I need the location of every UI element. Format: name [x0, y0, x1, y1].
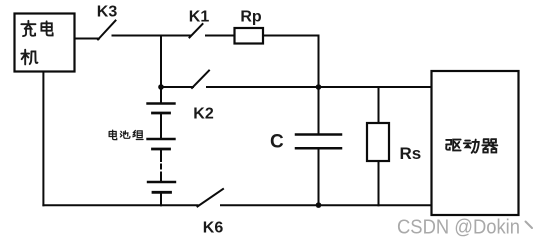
- battery cell 1 long plate: [148, 102, 175, 104]
- wire between battery cells 1-2: [160, 114, 162, 138]
- label 电池组 (battery pack): [109, 130, 117, 139]
- wire battery bottom to bottom bus: [160, 193, 162, 205]
- wire charger down left side: [42, 72, 44, 206]
- wire below cell 2: [160, 150, 162, 161]
- label 机 (line 2 of charger text): [21, 50, 37, 65]
- wire battery branch drop from top bus: [160, 36, 162, 104]
- switch K6 blade: [198, 189, 224, 207]
- resistor Rs bottom lead: [378, 161, 380, 205]
- battery cell 3 long plate: [148, 181, 175, 183]
- driver box (驱动器): [432, 71, 519, 215]
- svg-text:K3: K3: [97, 4, 118, 21]
- switch K2 blade: [192, 71, 209, 89]
- svg-text:CSDN @Dokin: CSDN @Dokin: [397, 217, 520, 239]
- svg-text:K1: K1: [189, 9, 210, 26]
- svg-text:K6: K6: [203, 220, 224, 237]
- battery cell 1 short plate: [153, 112, 170, 115]
- label 驱动器 (driver text): [446, 140, 460, 151]
- wire Rp to corner: [263, 35, 319, 37]
- svg-text:K2: K2: [193, 106, 214, 123]
- wire K2 bus right segment to driver: [207, 86, 432, 88]
- resistor Rs body: [367, 123, 389, 161]
- wire above cell 3: [160, 173, 162, 182]
- battery cell 3 short plate: [153, 191, 171, 194]
- svg-text:C: C: [270, 132, 284, 153]
- wire charger to K3: [75, 38, 100, 40]
- watermark tick mark: [526, 222, 533, 229]
- node: Rp corner / K2 bus junction: [316, 84, 322, 90]
- svg-text:Rs: Rs: [400, 144, 422, 163]
- bottom bus left segment to K6: [43, 204, 197, 206]
- charger box (充电机): [15, 14, 75, 72]
- battery cell 2 short plate: [153, 148, 170, 151]
- capacitor C bottom lead: [318, 150, 320, 206]
- node: capacitor / bottom bus junction: [316, 202, 322, 208]
- bottom bus right segment to driver: [221, 204, 432, 206]
- capacitor C bottom plate: [296, 147, 341, 150]
- wire K1 to Rp: [206, 35, 235, 37]
- label 充电 (line 1 of charger text): [21, 21, 35, 36]
- battery ellipsis dash: [160, 165, 162, 169]
- resistor Rs top lead: [378, 87, 380, 123]
- switch K1 blade: [190, 24, 203, 38]
- capacitor C top plate: [296, 133, 341, 136]
- switch K3 blade: [98, 21, 116, 40]
- wire K3 to K1 (top bus): [113, 35, 191, 37]
- wire corner down to K2 bus: [318, 36, 320, 88]
- resistor Rp: [235, 28, 264, 44]
- capacitor C top lead: [318, 87, 320, 133]
- wire K2 bus left segment (battery node to K2): [161, 86, 193, 88]
- battery cell 2 long plate: [148, 138, 175, 140]
- svg-text:Rp: Rp: [240, 9, 262, 26]
- node: battery / K2 junction: [158, 84, 164, 90]
